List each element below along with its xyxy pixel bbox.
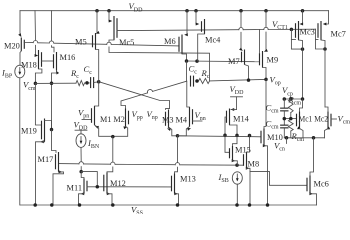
svg-text:Vpp: Vpp bbox=[132, 109, 143, 121]
wire cascode node to M17 drain bbox=[52, 130, 57, 153]
node rail junction M11 source bbox=[78, 203, 82, 207]
node junction top tie R bbox=[289, 97, 293, 101]
node Vcm label right bbox=[338, 114, 350, 126]
transistor M12 bbox=[104, 173, 126, 194]
wire Mc5 drain with hop to node B chain bbox=[109, 40, 210, 81]
node Ccm label lower bbox=[266, 119, 279, 131]
wire M5 drain to node A bbox=[96, 50, 99, 82]
node VDD-Mc5 junction bbox=[107, 9, 111, 13]
wire M20 drain to IBP bbox=[20, 51, 21, 65]
node junction top tie Mc3 bbox=[301, 97, 305, 101]
transistor M7 bbox=[228, 50, 245, 67]
transistor M10 bbox=[261, 129, 283, 146]
svg-text:Mc5: Mc5 bbox=[119, 38, 134, 47]
transistor Mc3 bbox=[296, 21, 315, 40]
svg-text:Vcm: Vcm bbox=[23, 80, 36, 92]
transistor M8 bbox=[244, 152, 260, 169]
capacitor Cc left bbox=[84, 64, 94, 88]
node Vcm label left bbox=[23, 80, 36, 92]
node VSS label bbox=[131, 205, 143, 217]
svg-text:M18: M18 bbox=[21, 61, 37, 70]
node Vop label bbox=[270, 75, 281, 87]
wire Von line to Rc bbox=[35, 82, 76, 84]
node Vcn stub junction bbox=[285, 136, 289, 140]
node junction VCT1 drop bbox=[290, 28, 294, 32]
resistor Rcm upper bbox=[288, 99, 293, 113]
svg-text:M17: M17 bbox=[38, 155, 54, 164]
node Vnp label bbox=[147, 109, 158, 121]
wire gate bus M17-ISB bbox=[59, 162, 244, 166]
wire M8 drain loop bbox=[247, 136, 250, 153]
wire M19 source down to rail bbox=[36, 140, 45, 205]
wire M4 gate lead bbox=[193, 120, 203, 122]
svg-text:Vnp: Vnp bbox=[147, 109, 158, 121]
svg-text:Rc: Rc bbox=[70, 68, 79, 80]
wire M11 diode tie bbox=[81, 172, 97, 187]
svg-text:Vop: Vop bbox=[270, 75, 281, 87]
transistor M9 bbox=[260, 51, 279, 68]
node rail junction ISB bbox=[235, 203, 239, 207]
resistor Rc left bbox=[70, 68, 85, 86]
wire gate line M11-M12-M13 bbox=[87, 186, 172, 188]
svg-text:M1 M2: M1 M2 bbox=[100, 115, 125, 124]
wire ISB to rail bbox=[236, 184, 238, 205]
wire VSS bottom rail bbox=[20, 204, 317, 206]
node rail junction M10 source bbox=[266, 203, 270, 207]
wire VCT1 bias bus bbox=[117, 27, 316, 30]
wire Vop down to M10 bbox=[264, 79, 266, 128]
wire tail down to M12 drain bbox=[107, 137, 113, 173]
wire IBN to M11 drain bbox=[80, 147, 82, 171]
node junction Mc7 drain bbox=[323, 47, 327, 51]
transistor M6 bbox=[164, 35, 182, 55]
svg-text:Mc3: Mc3 bbox=[300, 28, 315, 37]
wire VDD top rail bbox=[20, 10, 329, 12]
svg-text:VSS: VSS bbox=[131, 205, 143, 215]
wire Cc to node A bbox=[94, 81, 99, 84]
node VDD small stub left bbox=[74, 120, 89, 134]
wire M7 drain to Vop line bbox=[245, 65, 249, 81]
node VDD-M7 junction bbox=[239, 9, 243, 13]
wire M16 source lower bbox=[52, 46, 55, 52]
node junction M14-M15 gates bbox=[223, 134, 227, 138]
svg-text:M13: M13 bbox=[180, 175, 196, 184]
wire M18 source lower bbox=[35, 45, 39, 57]
wire ladder top tie bbox=[284, 98, 302, 100]
capacitor Ccm lower bbox=[280, 125, 288, 128]
wire M4 source to tail bbox=[178, 127, 192, 136]
wire M1 source to tail bbox=[95, 125, 113, 136]
node Vnn label bbox=[195, 110, 206, 122]
wire M1 gate lead Vpn bbox=[82, 119, 92, 121]
wire R column mid bbox=[290, 113, 292, 120]
transistor M20 bbox=[4, 38, 24, 52]
node VDD-M9 junction bbox=[264, 9, 268, 13]
node VCT1 label bbox=[272, 19, 288, 31]
wire node B down to chain left bbox=[186, 61, 188, 81]
node M1M2 tail junction bbox=[111, 135, 115, 139]
node VDD-M5 junction bbox=[95, 9, 99, 13]
wire diagonal node B to M2 gate bbox=[121, 81, 187, 109]
wire M15 drain from line bbox=[233, 135, 238, 146]
wire VCT1 to Mc7 gate and drain bbox=[316, 29, 326, 49]
wire M18 drain hook bbox=[35, 69, 42, 83]
wire M16 drain down bbox=[52, 71, 60, 130]
transistor Mc4 bbox=[202, 19, 222, 45]
wire M8 source to rail bbox=[246, 167, 250, 205]
wire mirror line M3M4 tail to M10 gate bbox=[178, 136, 262, 137]
transistor M2 bbox=[126, 109, 129, 127]
wire Rc to Cc bbox=[85, 82, 90, 84]
svg-text:Rcm: Rcm bbox=[288, 94, 302, 106]
wire Mc3 drain down to Vcp bbox=[299, 40, 303, 99]
svg-text:Vcm: Vcm bbox=[338, 114, 350, 126]
wire M12 source to rail bbox=[107, 192, 112, 205]
svg-text:IBN: IBN bbox=[87, 138, 100, 150]
wire VDD corner to Mc7 source bbox=[323, 11, 329, 26]
node junction Mc3 drain bbox=[301, 47, 305, 51]
wire M18 gate to M16 gate bbox=[42, 60, 54, 62]
wire Mc2 source hook bbox=[325, 127, 331, 138]
node Vcp label bbox=[282, 85, 293, 97]
wire Vcn stub bbox=[286, 138, 288, 144]
current source IBN bbox=[76, 134, 100, 150]
node junction M8 drain bbox=[248, 134, 252, 138]
transistor M5 bbox=[75, 33, 96, 50]
svg-text:M16: M16 bbox=[60, 53, 76, 62]
node Vop junction bbox=[264, 78, 268, 82]
node Vpp label bbox=[132, 109, 143, 121]
transistor M1 bbox=[92, 106, 125, 125]
wire IBP to VSS rail bbox=[19, 78, 21, 205]
node Vcn label bbox=[274, 140, 285, 152]
wire Mc4 drain down bbox=[198, 34, 205, 61]
transistor M18 bbox=[21, 50, 42, 70]
node VDD-M6 junction bbox=[185, 9, 189, 13]
node M11 drain junction bbox=[79, 170, 83, 174]
wire M14 drain loop bbox=[230, 125, 238, 135]
svg-text:M15: M15 bbox=[235, 146, 251, 155]
wire M8 to Mc6 gate bbox=[250, 172, 307, 186]
node rail junction M13 source bbox=[176, 203, 180, 207]
node M3M4 tail junction bbox=[176, 134, 180, 138]
svg-text:M11: M11 bbox=[67, 184, 83, 193]
wire Mc1 source hook bbox=[297, 126, 303, 137]
node VDD-Mc3 junction bbox=[301, 9, 305, 13]
node junction B - Cc plate bbox=[185, 59, 189, 63]
wire M17 source loop to rail bbox=[53, 170, 64, 205]
wire M2 source to tail bbox=[113, 126, 128, 136]
wire ladder bottom tie bbox=[284, 137, 324, 139]
resistor Rcm lower bbox=[288, 119, 293, 131]
current source ISB bbox=[218, 172, 243, 184]
svg-text:M6: M6 bbox=[164, 37, 176, 46]
svg-text:M9: M9 bbox=[267, 56, 279, 65]
svg-text:Cc: Cc bbox=[84, 64, 93, 76]
wire tail down to M13 drain bbox=[175, 136, 178, 174]
wire Mc4 source bbox=[196, 11, 200, 26]
wire M6 drain to node B bbox=[182, 54, 187, 61]
transistor M19 bbox=[21, 119, 45, 142]
wire C column mid bbox=[283, 112, 285, 126]
svg-text:Ccm: Ccm bbox=[266, 103, 279, 115]
wire Rc right to Vop bbox=[210, 79, 267, 81]
svg-text:Vcn: Vcn bbox=[274, 140, 285, 152]
svg-text:M7: M7 bbox=[228, 57, 240, 66]
transistor Mc2 bbox=[328, 112, 331, 129]
wire VDD to M16 source bbox=[51, 11, 53, 41]
transistor Mc5 bbox=[114, 16, 134, 47]
wire R column bottom bbox=[290, 131, 292, 138]
node rail junction M12 source bbox=[111, 203, 115, 207]
wire M13 source to rail bbox=[174, 192, 178, 205]
wire gate bus M20-M5-M6 bbox=[24, 41, 179, 46]
wire M3 source to tail bbox=[167, 127, 178, 136]
wire Mc3 source bbox=[300, 11, 304, 26]
transistor Mc6 bbox=[307, 176, 329, 194]
transistor M3 bbox=[162, 110, 187, 129]
svg-text:M10: M10 bbox=[267, 133, 283, 142]
wire Mc6 source to rail corner bbox=[309, 192, 316, 205]
svg-text:ISB: ISB bbox=[218, 172, 229, 184]
wire M14 gate loop bbox=[225, 117, 227, 135]
node junction top tie C bbox=[283, 97, 287, 101]
svg-text:IBP: IBP bbox=[1, 68, 13, 80]
transistor Mc7 bbox=[318, 21, 346, 40]
wire M9 gate up to VCT1 bbox=[259, 30, 261, 53]
node junction mid tie C bbox=[283, 117, 287, 121]
node junction chain-Cc right bbox=[195, 79, 199, 83]
wire ladder mid tie bbox=[284, 118, 296, 120]
svg-text:M12: M12 bbox=[110, 179, 126, 188]
node rail junction M17 source bbox=[50, 203, 54, 207]
transistor Mc1 bbox=[297, 112, 329, 129]
current source IBP bbox=[1, 65, 25, 80]
svg-text:VDD: VDD bbox=[129, 1, 144, 13]
wire M14 source jog bbox=[231, 108, 237, 111]
node rail junction M19 source bbox=[33, 203, 37, 207]
svg-text:VDD: VDD bbox=[230, 84, 245, 96]
transistor M11 bbox=[67, 179, 88, 194]
node Rcm label upper bbox=[288, 94, 302, 106]
resistor Rc right bbox=[199, 68, 210, 84]
svg-text:M14: M14 bbox=[233, 115, 250, 124]
node junction B - Mc4 drain bbox=[195, 59, 199, 63]
svg-text:Vpn: Vpn bbox=[78, 108, 89, 120]
wire Mc1 drain jog bbox=[300, 99, 303, 112]
node M19-M16 drain junction bbox=[50, 128, 54, 132]
capacitor Ccm upper bbox=[280, 108, 288, 111]
node VDD label bbox=[129, 1, 144, 13]
wire M19 gate from Von node bbox=[35, 83, 41, 125]
transistor M13 bbox=[172, 174, 196, 194]
node Ccm label upper bbox=[266, 103, 279, 115]
svg-text:Mc7: Mc7 bbox=[331, 30, 346, 39]
wire M20 source from rail bbox=[18, 11, 21, 37]
wire C column lower bbox=[283, 129, 285, 138]
wire M11 source to rail bbox=[79, 192, 85, 205]
transistor M14 bbox=[227, 109, 250, 126]
svg-text:Rcm: Rcm bbox=[291, 131, 305, 143]
wire M15 gate from line bbox=[225, 135, 230, 152]
node A junction bbox=[97, 80, 101, 84]
wire Mc2 gate lead Vcm bbox=[331, 118, 337, 120]
wire M1 drain up to node A bbox=[95, 82, 99, 106]
wire M19 drain to cascode node bbox=[45, 121, 52, 130]
wire Mc5 source bbox=[109, 11, 113, 23]
svg-text:Mc1 Mc2: Mc1 Mc2 bbox=[299, 115, 329, 124]
svg-text:M8: M8 bbox=[248, 160, 260, 169]
wire VDD to M18 source bbox=[34, 11, 37, 40]
wire M11 drain jog bbox=[81, 172, 84, 179]
svg-text:M5: M5 bbox=[75, 38, 87, 47]
wire VDD to M5 source bbox=[96, 11, 100, 34]
wire C column upper bbox=[283, 99, 285, 108]
node junction Rc-Cc left bbox=[85, 81, 89, 85]
svg-text:M3 M4: M3 M4 bbox=[162, 115, 187, 124]
svg-text:M20: M20 bbox=[4, 42, 20, 51]
svg-text:M19: M19 bbox=[21, 127, 37, 136]
wire diagonal node A to M3 gate bbox=[99, 82, 170, 110]
node junction M18 drain / Rc line / M19 gate bbox=[34, 82, 38, 86]
node rail junction M8 source bbox=[248, 203, 252, 207]
transistor M17 bbox=[38, 152, 59, 172]
svg-text:Ccm: Ccm bbox=[266, 119, 279, 131]
node bus-ISB junction bbox=[235, 163, 239, 167]
svg-text:Mc4: Mc4 bbox=[205, 36, 221, 45]
wire M7 source bbox=[239, 11, 243, 51]
wire Mc2 drain jog bbox=[325, 107, 328, 112]
wire M15 source to ISB bbox=[232, 159, 238, 165]
wire Mc7 drain down to Vcn bbox=[321, 40, 325, 107]
svg-text:Mc6: Mc6 bbox=[314, 180, 329, 189]
node VDD-Mc4 junction bbox=[194, 9, 198, 13]
wire Mc tail down to Mc6 bbox=[310, 138, 314, 176]
transistor M16 bbox=[54, 52, 76, 71]
wire M9 drain to Vop bbox=[263, 68, 267, 80]
node VDD small stub right bbox=[230, 84, 245, 110]
wire M4 drain up to node B bbox=[187, 81, 190, 107]
node Mc tail junction bbox=[312, 136, 316, 140]
node Vpn label bbox=[78, 108, 89, 120]
wire node B line to M7/M9 gates bbox=[187, 60, 260, 63]
node junction M14-M15 drains bbox=[235, 134, 239, 138]
node Rcm label lower bbox=[291, 131, 305, 143]
svg-text:Cc: Cc bbox=[189, 64, 198, 76]
svg-text:Vnn: Vnn bbox=[195, 110, 206, 122]
node junction M16 drain - Von chain bbox=[50, 82, 54, 86]
transistor M15 bbox=[230, 146, 251, 161]
transistor M4 bbox=[190, 107, 193, 127]
wire M6 source bbox=[184, 11, 188, 37]
capacitor Cc right bbox=[189, 64, 198, 87]
wire M10 source to rail bbox=[263, 144, 268, 205]
node junction mid tie R bbox=[289, 117, 293, 121]
node junction M7 drain - Vop line bbox=[247, 78, 251, 82]
node gate line junction bbox=[96, 185, 100, 189]
wire VCT1 to Mc3 gate and drain bbox=[291, 29, 302, 49]
wire M9 source bbox=[264, 11, 268, 52]
